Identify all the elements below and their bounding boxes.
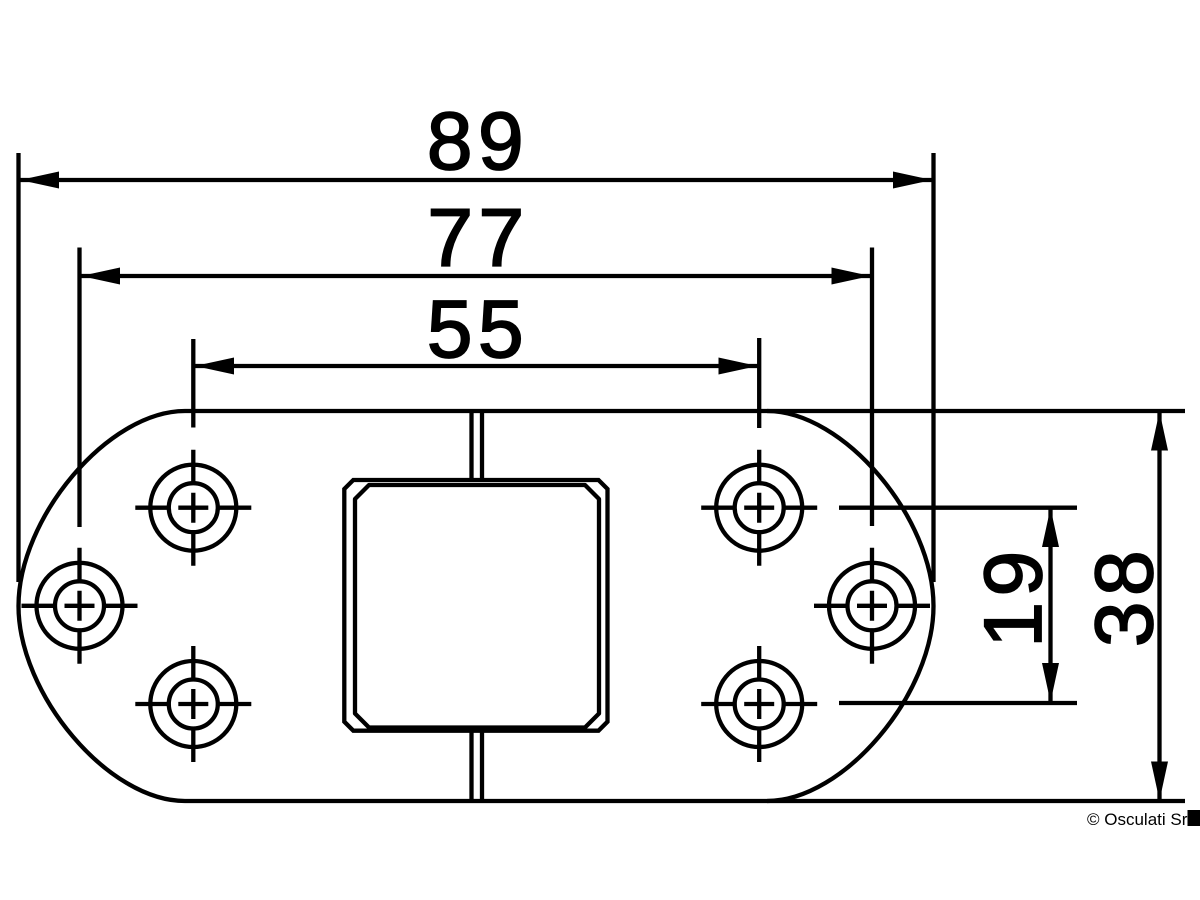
- plate right rounded end: [767, 411, 934, 801]
- screw hole H5 centerlines: [814, 548, 930, 664]
- plate top edge with 38 extension: [185, 409, 1185, 413]
- arrowhead 89 right: [893, 172, 932, 189]
- extension line 77 left: [77, 248, 81, 528]
- arrowhead 38 bottom: [1151, 762, 1168, 801]
- dimension line 55: [195, 364, 758, 368]
- arrowhead 19 bottom: [1042, 663, 1059, 702]
- extension line 19 bottom: [839, 701, 1077, 705]
- hinge split line bottom right: [480, 731, 484, 801]
- extension line 77 right: [870, 248, 874, 527]
- dimension line 19: [1048, 509, 1052, 702]
- arrowhead 77 left: [81, 268, 120, 285]
- screw hole H5 inner circle: [848, 581, 897, 630]
- screw hole H6 outer circle: [716, 661, 802, 747]
- hinge split line bottom left: [469, 731, 473, 801]
- extension line 19 top: [839, 506, 1077, 510]
- screw hole H3 center mark: [178, 689, 208, 719]
- plate left rounded end: [19, 411, 186, 801]
- screw hole H6 centerlines: [701, 646, 817, 762]
- screw hole H5 center mark: [857, 591, 887, 621]
- screw hole H4 centerlines: [701, 450, 817, 566]
- screw hole H4 outer circle: [716, 465, 802, 551]
- screw hole H4 inner circle: [735, 483, 784, 532]
- arrowhead 77 right: [832, 268, 871, 285]
- screw hole H5 outer circle: [829, 563, 915, 649]
- dimension line 38: [1157, 413, 1161, 800]
- svg-text:38: 38: [1079, 545, 1170, 647]
- screw hole H4 center mark: [744, 493, 774, 523]
- plate bottom edge with 38 extension: [185, 799, 1185, 803]
- hinge split line top right: [480, 411, 484, 480]
- dimension line 77: [81, 274, 871, 278]
- extension line 89 right: [931, 153, 935, 582]
- screw hole H1 outer circle: [150, 465, 236, 551]
- screw hole H3 inner circle: [169, 680, 218, 729]
- extension line 55 right: [757, 338, 761, 428]
- svg-text:19: 19: [968, 545, 1059, 647]
- extension line 89 left: [16, 153, 20, 582]
- arrowhead 19 top: [1042, 508, 1059, 547]
- svg-text:© Osculati Srl: © Osculati Srl: [1087, 810, 1191, 829]
- arrowhead 89 left: [20, 172, 59, 189]
- screw hole H2 center mark: [65, 591, 95, 621]
- arrowhead 38 top: [1151, 412, 1168, 451]
- screw hole H3 outer circle: [150, 661, 236, 747]
- hinge knuckle inner square: [355, 485, 599, 728]
- arrowhead 55 left: [195, 358, 234, 375]
- screw hole H2 inner circle: [55, 581, 104, 630]
- extension line 55 left: [191, 339, 195, 428]
- screw hole H2 outer circle: [37, 563, 123, 649]
- screw hole H1 center mark: [178, 493, 208, 523]
- screw hole H2 centerlines: [22, 548, 138, 664]
- hinge knuckle outer square: [344, 480, 607, 731]
- arrowhead 55 right: [719, 358, 758, 375]
- svg-text:89: 89: [427, 96, 529, 187]
- svg-text:77: 77: [427, 193, 529, 284]
- screw hole H1 centerlines: [135, 450, 251, 566]
- watermark black square: [1188, 810, 1200, 826]
- screw hole H6 center mark: [744, 689, 774, 719]
- screw hole H1 inner circle: [169, 483, 218, 532]
- svg-text:55: 55: [427, 284, 529, 375]
- screw hole H6 inner circle: [735, 680, 784, 729]
- dimension line 89: [20, 178, 932, 182]
- hinge split line top left: [469, 411, 473, 480]
- screw hole H3 centerlines: [135, 646, 251, 762]
